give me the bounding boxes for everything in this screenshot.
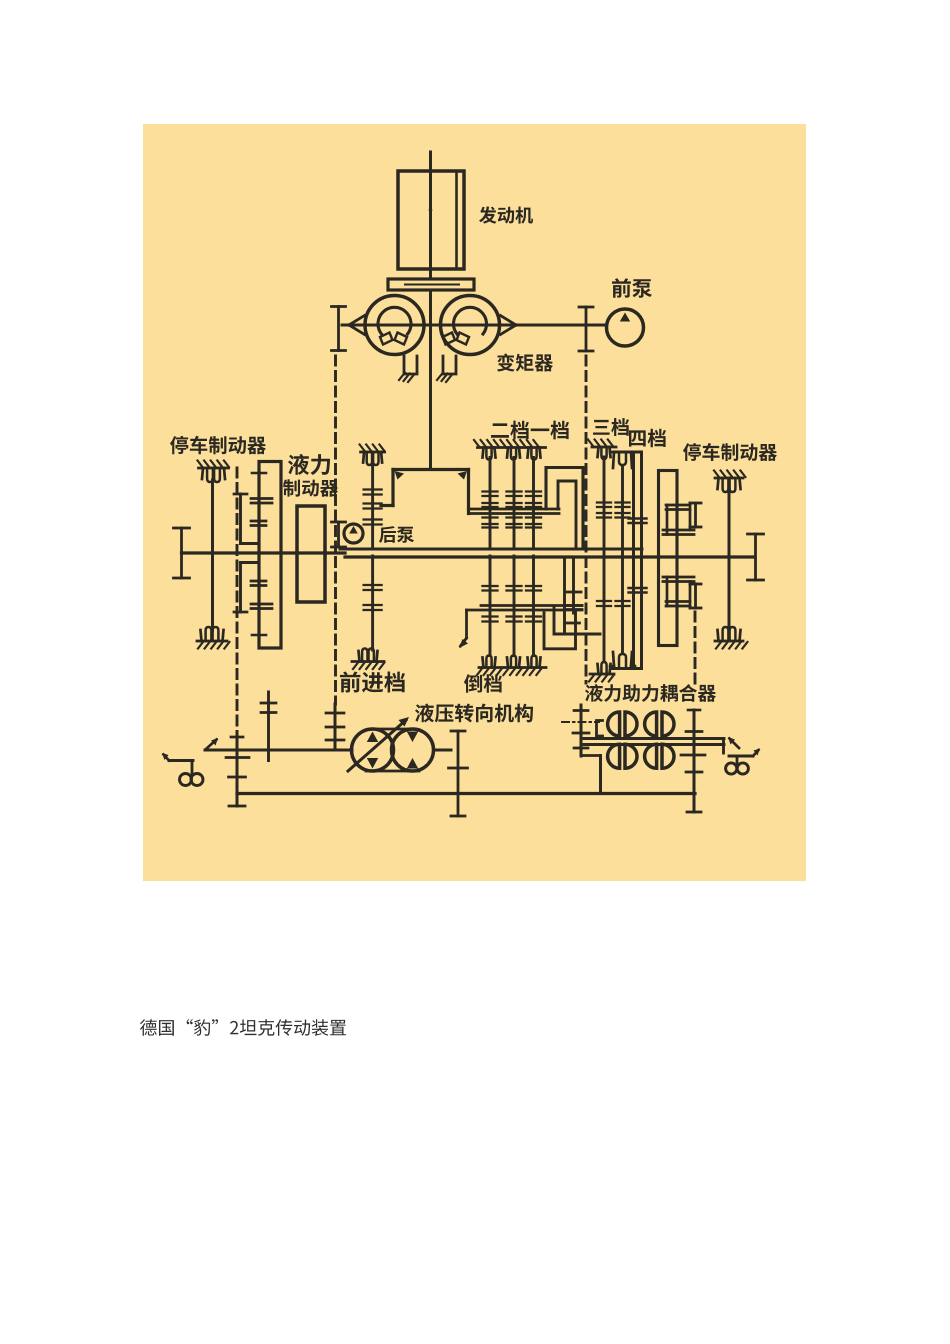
steering pump left circle bbox=[352, 729, 394, 771]
caption 德国“豹”2坦克传动装置 bbox=[140, 1019, 346, 1036]
gear fork 3 bbox=[528, 448, 541, 460]
gear shaft 2 lower bbox=[513, 556, 516, 656]
gear bank hatched bar bbox=[474, 440, 546, 448]
forward gear couplings upper bbox=[364, 490, 382, 525]
torque converter right wheel bbox=[441, 296, 500, 355]
label 三档 bbox=[593, 418, 629, 436]
gear shaft 1 upper bbox=[489, 458, 492, 550]
forward gear couplings lower bbox=[364, 585, 382, 610]
label 停车制动器 left bbox=[170, 436, 266, 454]
bottom rail bbox=[237, 792, 695, 795]
coupling output couplings bbox=[681, 710, 705, 812]
gear couplings col3 lower bbox=[526, 586, 541, 622]
coupling centerline dash-dot bbox=[562, 721, 599, 723]
right parking brake shaft bbox=[728, 490, 731, 629]
4th gear fork top bbox=[610, 452, 635, 468]
reverse fork 3 bbox=[528, 656, 541, 668]
left inner turbine arc bbox=[378, 307, 411, 334]
left sprocket circles bbox=[180, 774, 204, 786]
coupling fan upper-right bbox=[645, 712, 674, 736]
gear couplings col1 lower bbox=[483, 586, 498, 622]
left parking brake anchor top bbox=[198, 461, 229, 483]
right clutch pin upper bbox=[690, 503, 701, 527]
label 四档 bbox=[629, 429, 666, 448]
4th drum frame bbox=[611, 452, 647, 669]
yellow scanned-figure panel bbox=[143, 124, 806, 881]
forward drum bracket bbox=[381, 470, 469, 514]
engine input shaft (top vertical) bbox=[429, 152, 432, 279]
right final drive bar bbox=[729, 749, 760, 764]
steering right shaft bbox=[434, 749, 452, 752]
steering motor right circle bbox=[392, 729, 434, 771]
left planetary frame bbox=[259, 462, 281, 649]
front pump circle 前泵 bbox=[607, 309, 644, 346]
engine box 发动机 bbox=[398, 171, 464, 269]
left axle end bearing bbox=[174, 528, 190, 578]
main axle upper line bbox=[340, 548, 642, 551]
gear shaft 3 lower bbox=[532, 556, 535, 656]
right inner turbine arc bbox=[454, 307, 487, 334]
label 停车制动器 right bbox=[683, 443, 777, 461]
mid drum inner upper bbox=[558, 481, 576, 549]
mid drum outer upper bbox=[546, 468, 583, 550]
left parking brake shaft bbox=[211, 480, 214, 630]
3rd gear couplings bbox=[597, 503, 611, 607]
mid drum inner lower bbox=[554, 558, 600, 634]
label 后泵 bbox=[379, 526, 414, 543]
rear pump circle 后泵 bbox=[344, 524, 363, 543]
4th gear couplings bbox=[616, 503, 630, 607]
coupling left bracket bbox=[597, 721, 603, 737]
gear shaft 2 upper bbox=[513, 458, 516, 550]
forward brake anchor top bbox=[360, 445, 385, 466]
steering output coupling bbox=[449, 731, 468, 816]
left control rod bbox=[226, 732, 249, 806]
coupling fan lower-right bbox=[645, 744, 674, 768]
right clutch pin lower bbox=[690, 584, 701, 608]
label 液力助力耦合器 bbox=[585, 684, 716, 702]
3rd gear anchor top bbox=[588, 440, 616, 460]
forward shaft lower bbox=[371, 556, 374, 650]
coupling fan lower-left bbox=[608, 744, 637, 768]
reverse fork 2 bbox=[507, 656, 520, 668]
mid drum outer lower bbox=[544, 558, 576, 649]
right stator blades bbox=[443, 333, 470, 345]
countershaft lower pair bbox=[467, 606, 583, 611]
right final drive arrow bbox=[728, 737, 739, 748]
left clutch plates lower bbox=[251, 581, 272, 635]
gear shaft 1 lower bbox=[489, 556, 492, 656]
right axle end bearing bbox=[748, 534, 764, 580]
torque converter left wheel bbox=[365, 296, 424, 355]
hydraulic retarder box 液力制动器 bbox=[297, 506, 325, 602]
converter output shaft bbox=[429, 290, 432, 470]
coupling input shaft bbox=[573, 705, 589, 756]
gear couplings col2 upper bbox=[507, 492, 522, 528]
right clutch plates lower bbox=[663, 577, 694, 608]
coupling axle double line bbox=[584, 739, 724, 754]
left planetary lower bracket bbox=[234, 563, 259, 613]
left branch coupling bbox=[261, 692, 276, 761]
steering left shaft bbox=[326, 704, 352, 750]
main axle left section bbox=[182, 551, 346, 554]
main axle lower/right section bbox=[345, 555, 754, 558]
gear fork 1 bbox=[483, 448, 496, 460]
countershaft upper pair bbox=[469, 509, 560, 514]
steering tangent lines bbox=[366, 729, 419, 771]
label 变矩器 bbox=[497, 354, 553, 372]
label 制动器 bbox=[283, 479, 338, 496]
left final drive bar bbox=[162, 753, 193, 774]
4th gear shaft bbox=[621, 467, 624, 652]
left fork arms into converter bbox=[349, 316, 365, 335]
gear shaft 3 upper bbox=[532, 458, 535, 550]
right drum frame bbox=[659, 471, 678, 646]
left planetary upper bracket bbox=[234, 494, 259, 544]
countershaft lower arrow bbox=[459, 610, 468, 648]
gear couplings col1 upper bbox=[483, 492, 498, 528]
label 液力 bbox=[288, 454, 330, 475]
steering variable arrow bbox=[348, 717, 409, 771]
3rd gear shaft bbox=[603, 457, 606, 660]
right parking brake anchor top bbox=[714, 471, 745, 493]
left stator blades bbox=[380, 333, 407, 345]
converter reaction leg left bbox=[399, 356, 417, 382]
3rd gear anchor bottom bbox=[589, 662, 614, 682]
mid drum couplings bbox=[565, 592, 583, 623]
converter axis line bbox=[342, 324, 607, 327]
right sprocket circles bbox=[726, 763, 749, 774]
coupling frame leg bbox=[583, 756, 601, 794]
right parking brake anchor bottom bbox=[715, 627, 747, 649]
dashed line left (parking brake control) bbox=[236, 468, 239, 732]
label 液压转向机构 bbox=[415, 704, 533, 723]
4th gear fork bottom bbox=[610, 652, 635, 666]
front pump coupling bbox=[579, 307, 593, 351]
label 前进档 bbox=[340, 672, 405, 693]
left parking brake anchor bottom bbox=[197, 627, 229, 649]
dashed line right (to coupling) bbox=[694, 612, 697, 684]
reverse fork 1 bbox=[483, 656, 496, 668]
rear pump shaft coupling bbox=[332, 522, 346, 547]
right fork arms into converter bbox=[501, 316, 517, 335]
gear couplings col3 upper bbox=[526, 492, 541, 528]
gear couplings col2 lower bbox=[507, 586, 522, 622]
label 前泵 bbox=[612, 278, 652, 298]
forward brake anchor bottom bbox=[352, 649, 384, 670]
gear fork 2 bbox=[507, 448, 520, 460]
left clutch plates upper bbox=[251, 473, 272, 526]
reverse bank hatched bar bbox=[477, 668, 546, 676]
left branch shaft bbox=[205, 749, 352, 752]
flywheel housing plate bbox=[388, 279, 474, 290]
forward brake shaft upper bbox=[371, 462, 374, 548]
left final drive arrow bbox=[206, 738, 218, 749]
left shaft coupling bracket bbox=[332, 307, 346, 351]
label 倒档 bbox=[464, 674, 502, 692]
coupling fan upper-left bbox=[608, 712, 637, 736]
dashed line mid-left (from converter bracket) bbox=[334, 356, 337, 704]
label 二档一档 bbox=[491, 421, 569, 440]
right clutch plates upper bbox=[663, 503, 694, 535]
converter reaction leg right bbox=[437, 356, 456, 382]
label 发动机 bbox=[479, 206, 533, 223]
dashed line mid-right (from front pump) bbox=[585, 356, 588, 683]
